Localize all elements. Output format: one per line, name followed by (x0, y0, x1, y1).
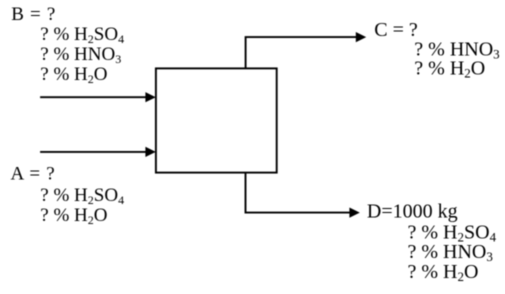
wire: stream B feed arrow into box left side (40, 92, 156, 102)
svg-text:? % H2O: ? % H2O (408, 261, 479, 284)
wire: stream C outlet (up from box top, then right, arrowhead) (246, 32, 367, 68)
svg-text:? % H2SO4: ? % H2SO4 (40, 185, 124, 207)
svg-text:? % HNO3: ? % HNO3 (40, 44, 121, 66)
svg-text:A = ?: A = ? (11, 164, 56, 185)
svg-text:? % H2O: ? % H2O (414, 58, 485, 81)
svg-text:D=1000 kg: D=1000 kg (367, 200, 458, 222)
svg-text:? % H2SO4: ? % H2SO4 (40, 24, 124, 46)
wire: stream A feed arrow into box left side (40, 147, 156, 157)
svg-text:? % H2O: ? % H2O (40, 205, 107, 227)
wire: stream D outlet (down from box bottom, then right, arrowhead) (246, 173, 360, 218)
process box (mixer unit) (156, 68, 277, 172)
svg-text:B = ?: B = ? (11, 4, 56, 25)
svg-text:? % H2O: ? % H2O (40, 64, 107, 86)
svg-text:C = ?: C = ? (374, 19, 418, 41)
